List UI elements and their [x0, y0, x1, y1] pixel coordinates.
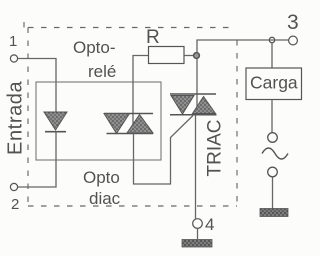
wire LED cathode to terminal 2 [18, 132, 56, 187]
terminal 2 [10, 183, 19, 213]
terminal 1 [9, 33, 18, 62]
svg-text:Carga: Carga [250, 73, 298, 93]
terminal 4 [193, 215, 215, 234]
triac [170, 94, 217, 115]
junction (R output / MT2 node) [194, 53, 200, 59]
svg-text:1: 1 [9, 33, 17, 50]
junction (load tap) [269, 37, 274, 42]
label Opto diac [83, 168, 121, 208]
AC source [262, 133, 288, 177]
svg-text:3: 3 [287, 11, 299, 34]
opto inner box [36, 82, 161, 160]
module outline (dashed opto-relay package) [24, 22, 237, 206]
wire terminal 1 to LED anode [18, 59, 56, 113]
wire resistor to junction [184, 55, 194, 57]
svg-text:relé: relé [88, 62, 116, 81]
svg-text:TRIAC: TRIAC [205, 120, 226, 177]
wire junction to triac MT2 [196, 59, 198, 115]
wire AC source to ground [272, 177, 274, 209]
LED (opto emitter) [44, 112, 67, 132]
svg-text:2: 2 [11, 196, 19, 213]
wire diac to resistor R [133, 56, 149, 134]
diac (opto detector) [104, 114, 153, 134]
wire load tap to Carga [271, 43, 273, 69]
wire terminal 4 to ground [197, 229, 199, 240]
svg-text:4: 4 [205, 215, 214, 234]
label Opto-relé [73, 38, 116, 81]
svg-text:diac: diac [89, 189, 121, 208]
load Carga [246, 68, 302, 100]
resistor R [149, 47, 185, 64]
ground (AC return) [260, 209, 288, 217]
svg-text:Opto: Opto [83, 168, 120, 187]
svg-text:Entrada: Entrada [5, 80, 27, 155]
svg-text:R: R [146, 27, 160, 48]
svg-text:Opto-: Opto- [73, 38, 116, 57]
ground (terminal 4) [182, 240, 212, 248]
wire triac MT1 to terminal 4 [195, 116, 197, 219]
label Entrada [5, 80, 27, 155]
wire Carga to AC source [271, 100, 273, 133]
wire triac gate to diac [134, 116, 194, 185]
terminal 3 [287, 11, 299, 45]
wire junction to terminal 3 [197, 40, 289, 53]
